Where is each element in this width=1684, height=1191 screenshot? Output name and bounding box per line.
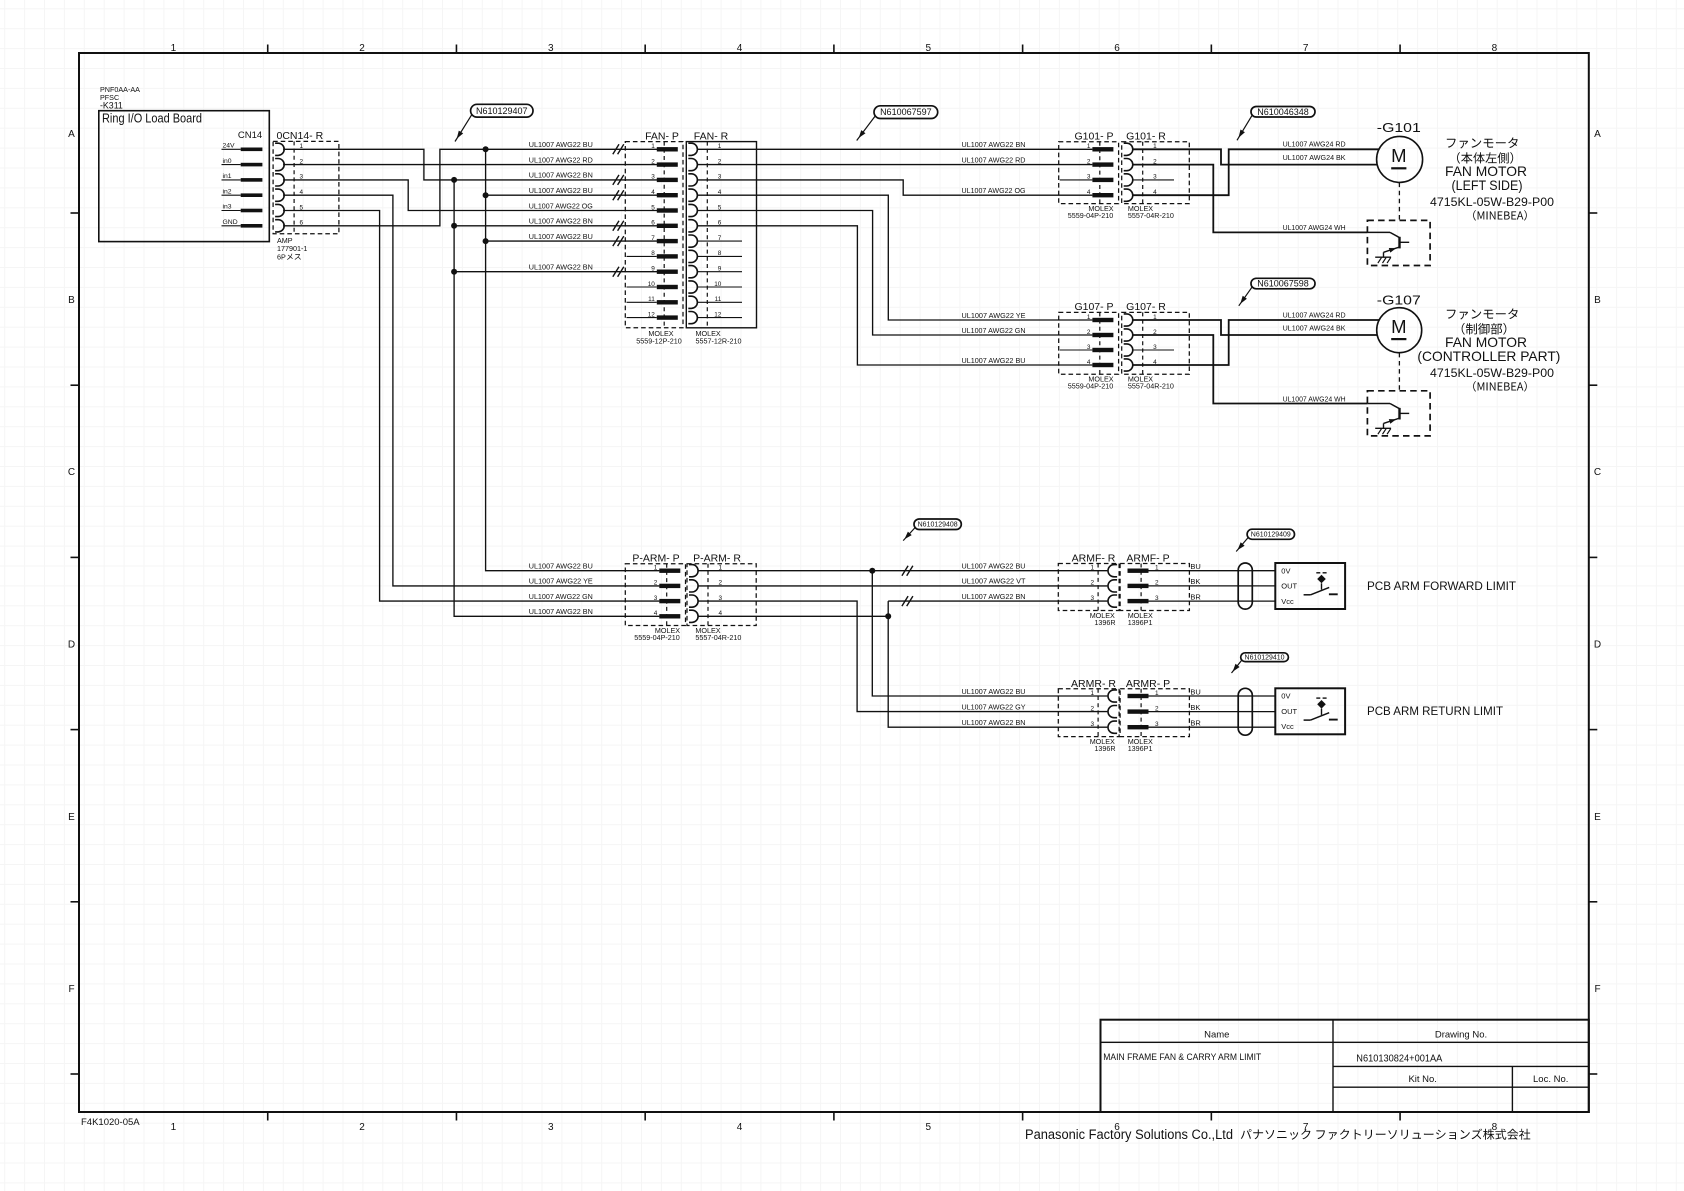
junction BU branch xyxy=(869,568,875,574)
svg-text:Loc. No.: Loc. No. xyxy=(1533,1074,1568,1085)
svg-text:1: 1 xyxy=(171,43,177,54)
svg-text:N610067597: N610067597 xyxy=(880,107,932,117)
svg-text:6: 6 xyxy=(1114,43,1120,54)
crossing mark row7 xyxy=(613,236,619,246)
wire P-ARM-R pin1 to ARMF-R pin1 (BU) xyxy=(698,570,1107,572)
svg-text:N610129408: N610129408 xyxy=(918,520,958,529)
reference bubble N610129407 xyxy=(471,104,533,117)
reference bubble N610067597 xyxy=(874,106,938,119)
svg-text:N610130824+001AA: N610130824+001AA xyxy=(1356,1052,1442,1064)
svg-text:0V: 0V xyxy=(1281,566,1290,575)
wire branch BU down to ARMR-R pin1 xyxy=(872,571,1107,696)
svg-text:UL1007 AWG22 BU: UL1007 AWG22 BU xyxy=(529,232,593,241)
wire net-A branch to FAN-P pin4 xyxy=(486,194,660,196)
reference bubble N610067598 xyxy=(1251,278,1315,289)
junction net-A row7 xyxy=(483,238,489,244)
svg-text:PCB ARM RETURN LIMIT: PCB ARM RETURN LIMIT xyxy=(1367,704,1503,718)
svg-text:N610129410: N610129410 xyxy=(1245,653,1285,662)
svg-text:5559-04P-210: 5559-04P-210 xyxy=(634,633,680,642)
svg-text:4715KL-05W-B29-P00: 4715KL-05W-B29-P00 xyxy=(1430,366,1554,380)
crossing mark row1 xyxy=(613,144,619,154)
svg-text:7: 7 xyxy=(1303,43,1309,54)
svg-text:UL1007 AWG22 RD: UL1007 AWG22 RD xyxy=(962,155,1026,164)
svg-text:OUT: OUT xyxy=(1281,707,1297,716)
cable grouping oval ARMF xyxy=(1238,563,1252,609)
svg-text:UL1007 AWG22 RD: UL1007 AWG22 RD xyxy=(529,155,593,164)
wire ARMR-P pin1 to switch (BU) xyxy=(1149,695,1276,697)
svg-text:3: 3 xyxy=(651,174,655,181)
junction BN branch xyxy=(885,613,891,619)
svg-text:BK: BK xyxy=(1190,703,1200,712)
board -K311 Ring I/O Load Board xyxy=(99,111,269,242)
wire ARMF-P pin1 to switch (BU) xyxy=(1149,570,1276,572)
svg-text:8: 8 xyxy=(1492,43,1498,54)
reference bubble N610046348 xyxy=(1251,107,1315,118)
svg-text:B: B xyxy=(1594,295,1601,306)
svg-text:BU: BU xyxy=(1190,687,1200,696)
svg-text:5557-04R-210: 5557-04R-210 xyxy=(1128,382,1174,391)
svg-text:2: 2 xyxy=(1090,705,1094,712)
svg-text:UL1007 AWG22 BN: UL1007 AWG22 BN xyxy=(529,217,593,226)
svg-text:UL1007 AWG22 BN: UL1007 AWG22 BN xyxy=(529,263,593,272)
svg-text:2: 2 xyxy=(654,580,658,587)
svg-text:UL1007 AWG22 BN: UL1007 AWG22 BN xyxy=(529,171,593,180)
svg-text:Vcc: Vcc xyxy=(1281,722,1294,731)
svg-text:5557-04R-210: 5557-04R-210 xyxy=(695,633,741,642)
svg-text:9: 9 xyxy=(651,266,655,273)
junction net-A row4 xyxy=(483,192,489,198)
thermal sensor transistor for G101 (with ground) xyxy=(1367,220,1430,265)
svg-text:Kit No.: Kit No. xyxy=(1408,1074,1437,1085)
wire net-B 0CN14-R pin1 to FAN-P pin3 (BN) xyxy=(283,149,659,180)
svg-text:UL1007 AWG22 BU: UL1007 AWG22 BU xyxy=(962,687,1026,696)
svg-text:UL1007 AWG22 OG: UL1007 AWG22 OG xyxy=(962,186,1026,195)
crossing mark row9 xyxy=(613,267,619,277)
wire G107-R pin2 to thermal sensor WH lead xyxy=(1133,335,1368,404)
svg-text:M: M xyxy=(1391,316,1406,337)
svg-text:-G107: -G107 xyxy=(1377,293,1421,308)
svg-text:4: 4 xyxy=(651,189,655,196)
svg-text:1: 1 xyxy=(1090,690,1094,697)
svg-text:1: 1 xyxy=(1087,314,1091,321)
svg-text:FAN- R: FAN- R xyxy=(694,131,729,143)
svg-text:G107- R: G107- R xyxy=(1126,301,1166,313)
svg-text:in0: in0 xyxy=(223,158,232,165)
svg-text:ARMF- P: ARMF- P xyxy=(1126,553,1169,565)
wire P-ARM-R pin2 to ARMF-R pin2 (VT) xyxy=(698,585,1107,587)
svg-text:4: 4 xyxy=(737,43,743,54)
svg-text:-G101: -G101 xyxy=(1377,120,1421,135)
svg-text:Panasonic Factory Solutions Co: Panasonic Factory Solutions Co.,Ltd xyxy=(1025,1127,1233,1142)
svg-text:6: 6 xyxy=(651,220,655,227)
wire 0CN14-R pin2 to FAN-P pin2 (RD) xyxy=(283,164,659,166)
svg-text:UL1007 AWG22 VT: UL1007 AWG22 VT xyxy=(962,577,1027,586)
svg-text:2: 2 xyxy=(651,158,655,165)
wire ARMR-P pin3 to switch (BR) xyxy=(1149,726,1276,728)
svg-text:5557-12R-210: 5557-12R-210 xyxy=(696,337,742,346)
svg-text:N610129407: N610129407 xyxy=(476,106,528,116)
wire ARMR-P pin2 to switch (BK) xyxy=(1149,711,1276,713)
svg-text:in1: in1 xyxy=(223,173,232,180)
thermal sensor transistor for G107 (with ground) xyxy=(1367,391,1430,436)
svg-text:1396P1: 1396P1 xyxy=(1128,618,1153,627)
G107-P pin3 stub xyxy=(1060,349,1093,351)
svg-text:UL1007 AWG22 BU: UL1007 AWG22 BU xyxy=(962,562,1026,571)
svg-text:F4K1020-05A: F4K1020-05A xyxy=(81,1117,140,1128)
label fan motor G101 description xyxy=(1447,137,1518,148)
wire G107-R pin1 to motor BK lead xyxy=(1133,320,1378,335)
junction net-B row9 xyxy=(451,269,457,275)
wire ARMF-P pin2 to switch (BK) xyxy=(1149,585,1276,587)
wire 0CN14-R pin4 to P-ARM-P pin2 (YE) xyxy=(283,195,659,586)
svg-text:1: 1 xyxy=(1087,143,1091,150)
svg-text:CN14: CN14 xyxy=(238,130,262,141)
crossing mark row4 xyxy=(613,190,619,200)
wire net-B branch to FAN-P pin6 xyxy=(454,225,659,227)
svg-text:5559-04P-210: 5559-04P-210 xyxy=(1068,382,1114,391)
svg-text:UL1007 AWG22 BU: UL1007 AWG22 BU xyxy=(529,562,593,571)
svg-text:2: 2 xyxy=(1090,580,1094,587)
svg-text:D: D xyxy=(1594,639,1601,650)
svg-text:A: A xyxy=(68,129,75,140)
svg-text:3: 3 xyxy=(1090,595,1094,602)
svg-text:6P: 6P xyxy=(277,253,286,262)
reference bubble N610129408 xyxy=(914,519,961,530)
svg-text:Ring I/O Load Board: Ring I/O Load Board xyxy=(102,111,202,126)
svg-text:F: F xyxy=(68,984,74,995)
svg-text:UL1007 AWG22 BN: UL1007 AWG22 BN xyxy=(529,607,593,616)
junction net-B row3 xyxy=(451,177,457,183)
svg-text:E: E xyxy=(1594,812,1601,823)
svg-text:N610046348: N610046348 xyxy=(1257,107,1309,117)
wire net-A branch to FAN-P pin7 xyxy=(486,240,660,242)
label fan motor G107 description xyxy=(1447,308,1518,319)
svg-text:PCB ARM FORWARD LIMIT: PCB ARM FORWARD LIMIT xyxy=(1367,579,1516,593)
wire G101-R pin2 to thermal sensor WH lead xyxy=(1133,165,1368,233)
svg-text:BK: BK xyxy=(1190,577,1200,586)
svg-text:Name: Name xyxy=(1204,1029,1229,1040)
svg-text:in2: in2 xyxy=(223,188,232,195)
wire ARMF-P pin3 to switch (BR) xyxy=(1149,600,1276,602)
wire FAN-R pin6 to G107-P pin4 (BU) xyxy=(697,226,1092,365)
svg-text:4: 4 xyxy=(654,610,658,617)
svg-text:UL1007 AWG22 YE: UL1007 AWG22 YE xyxy=(529,577,593,586)
junction net-A row1 xyxy=(483,146,489,152)
svg-text:C: C xyxy=(1594,467,1601,478)
svg-text:OUT: OUT xyxy=(1281,582,1297,591)
svg-text:1: 1 xyxy=(654,565,658,572)
svg-text:4715KL-05W-B29-P00: 4715KL-05W-B29-P00 xyxy=(1430,195,1554,209)
svg-text:1: 1 xyxy=(1090,565,1094,572)
svg-text:5559-12P-210: 5559-12P-210 xyxy=(636,337,682,346)
svg-text:ARMR- P: ARMR- P xyxy=(1126,678,1170,690)
svg-text:UL1007 AWG22 BU: UL1007 AWG22 BU xyxy=(529,140,593,149)
svg-text:Drawing No.: Drawing No. xyxy=(1435,1029,1487,1040)
svg-text:5: 5 xyxy=(925,43,931,54)
svg-text:MAIN FRAME FAN & CARRY ARM LIM: MAIN FRAME FAN & CARRY ARM LIMIT xyxy=(1103,1052,1261,1062)
svg-text:UL1007 AWG22 BN: UL1007 AWG22 BN xyxy=(962,140,1026,149)
svg-text:UL1007 AWG24 RD: UL1007 AWG24 RD xyxy=(1283,140,1346,149)
junction net-B row6 xyxy=(451,223,457,229)
wire FAN-R pin4 to G107-P pin1 (YE) xyxy=(697,195,1092,320)
svg-text:24V: 24V xyxy=(223,143,236,150)
svg-text:UL1007 AWG22 GY: UL1007 AWG22 GY xyxy=(962,702,1026,711)
wire G107-R pin4 to motor RD lead xyxy=(1133,320,1379,365)
svg-text:Vcc: Vcc xyxy=(1281,597,1294,606)
svg-text:1: 1 xyxy=(651,143,655,150)
svg-text:5: 5 xyxy=(651,204,655,211)
svg-text:G107- P: G107- P xyxy=(1074,301,1113,313)
svg-text:2: 2 xyxy=(359,43,365,54)
title block xyxy=(1101,1020,1589,1112)
wire P-ARM-R pin4 to ARMF-R pin3 and ARMR-R pin3 (BN) xyxy=(698,615,888,617)
wire P-ARM-R pin3 to ARMR-R pin2 (GY) xyxy=(698,601,1107,712)
svg-text:5559-04P-210: 5559-04P-210 xyxy=(1068,211,1114,220)
wire G101-R pin4 to motor RD lead xyxy=(1133,149,1379,195)
svg-text:(LEFT SIDE): (LEFT SIDE) xyxy=(1452,177,1523,193)
svg-text:BU: BU xyxy=(1190,562,1200,571)
wire FAN-R pin3 to G101-P pin4 (OG) xyxy=(697,180,1092,195)
wire net-B branch VA down to P-ARM-P pin4 xyxy=(454,180,659,616)
svg-text:7: 7 xyxy=(651,235,655,242)
wire FAN-R pin1 to G101-P pin1 (BN) xyxy=(697,148,1092,150)
svg-text:in3: in3 xyxy=(223,204,232,211)
svg-text:UL1007 AWG22 OG: UL1007 AWG22 OG xyxy=(529,201,593,210)
svg-text:3: 3 xyxy=(654,595,658,602)
svg-text:GND: GND xyxy=(223,219,238,226)
wire 0CN14-R pin5 to P-ARM-P pin3 (GN) xyxy=(283,211,659,602)
svg-text:4: 4 xyxy=(737,1122,743,1133)
wire G101-R pin1 to motor BK lead xyxy=(1133,149,1378,164)
svg-text:UL1007 AWG24 WH: UL1007 AWG24 WH xyxy=(1283,223,1346,232)
svg-text:A: A xyxy=(1594,129,1601,140)
svg-text:UL1007 AWG24 RD: UL1007 AWG24 RD xyxy=(1283,310,1346,319)
G101-R pin3 stub xyxy=(1133,179,1174,181)
sensor symbol return limit switch xyxy=(1316,697,1320,699)
svg-text:G101- R: G101- R xyxy=(1126,130,1166,142)
svg-text:UL1007 AWG24 BK: UL1007 AWG24 BK xyxy=(1283,324,1346,333)
limit switch box PCB ARM RETURN LIMIT xyxy=(1275,688,1345,734)
svg-text:1: 1 xyxy=(171,1122,177,1133)
svg-text:UL1007 AWG22 BU: UL1007 AWG22 BU xyxy=(529,186,593,195)
svg-text:P-ARM- R: P-ARM- R xyxy=(693,553,741,565)
svg-text:B: B xyxy=(68,295,75,306)
svg-text:5557-04R-210: 5557-04R-210 xyxy=(1128,211,1174,220)
svg-text:4: 4 xyxy=(1087,359,1091,366)
svg-text:UL1007 AWG22 GN: UL1007 AWG22 GN xyxy=(962,326,1026,335)
svg-text:M: M xyxy=(1391,145,1406,166)
FAN-R contact stubs pins 7-12 xyxy=(697,240,742,242)
svg-text:2: 2 xyxy=(359,1122,365,1133)
svg-text:0V: 0V xyxy=(1281,692,1290,701)
svg-text:UL1007 AWG22 BN: UL1007 AWG22 BN xyxy=(962,592,1026,601)
svg-text:E: E xyxy=(68,812,75,823)
svg-text:G101- P: G101- P xyxy=(1074,130,1113,142)
svg-text:UL1007 AWG24 BK: UL1007 AWG24 BK xyxy=(1283,153,1346,162)
wire 0CN14-R pin3 to FAN-P pin5 (OG) xyxy=(283,180,659,211)
dashed link motor G107 to thermal sensor xyxy=(1398,353,1400,391)
svg-text:(CONTROLLER PART): (CONTROLLER PART) xyxy=(1417,348,1560,364)
svg-text:1396R: 1396R xyxy=(1094,618,1115,627)
svg-text:2: 2 xyxy=(1087,158,1091,165)
svg-text:0CN14- R: 0CN14- R xyxy=(277,130,324,142)
svg-text:ARMR- R: ARMR- R xyxy=(1071,678,1116,690)
svg-text:ARMF- R: ARMF- R xyxy=(1072,553,1116,565)
svg-text:F: F xyxy=(1594,984,1600,995)
G101-P pin3 stub xyxy=(1060,179,1093,181)
sensor symbol forward limit switch xyxy=(1316,572,1320,574)
G107-R pin3 stub xyxy=(1133,349,1174,351)
crossing mark row3 xyxy=(613,175,619,185)
cable grouping oval ARMR xyxy=(1238,688,1252,735)
svg-text:D: D xyxy=(68,639,75,650)
reference bubble N610129410 xyxy=(1241,653,1289,662)
svg-text:N610067598: N610067598 xyxy=(1257,279,1309,289)
svg-text:UL1007 AWG24 WH: UL1007 AWG24 WH xyxy=(1283,394,1346,403)
svg-text:UL1007 AWG22 BN: UL1007 AWG22 BN xyxy=(962,718,1026,727)
limit switch box PCB ARM FORWARD LIMIT xyxy=(1275,563,1345,609)
svg-text:5: 5 xyxy=(925,1122,931,1133)
svg-text:N610129409: N610129409 xyxy=(1251,530,1291,539)
svg-text:BR: BR xyxy=(1190,719,1201,728)
svg-text:1396R: 1396R xyxy=(1094,744,1115,753)
svg-text:C: C xyxy=(68,467,75,478)
svg-text:UL1007 AWG22 BU: UL1007 AWG22 BU xyxy=(962,356,1026,365)
svg-text:3: 3 xyxy=(548,43,554,54)
svg-text:2: 2 xyxy=(1087,329,1091,336)
svg-text:4: 4 xyxy=(1087,189,1091,196)
wire net-A 0CN14-R pin6 to FAN-P pin1 (24V/BU) xyxy=(283,149,659,226)
crossing mark ARMF BN xyxy=(902,596,908,606)
svg-text:P-ARM- P: P-ARM- P xyxy=(632,553,679,565)
wire net-B branch to FAN-P pin9 xyxy=(454,271,659,273)
reference bubble N610129409 xyxy=(1247,529,1294,539)
wire FAN-R pin5 to G107-P pin2 (GN) xyxy=(697,211,1092,336)
svg-text:BR: BR xyxy=(1190,592,1201,601)
crossing mark row6 xyxy=(613,221,619,231)
svg-text:FAN- P: FAN- P xyxy=(645,131,679,143)
svg-text:3: 3 xyxy=(548,1122,554,1133)
svg-text:1396P1: 1396P1 xyxy=(1128,744,1153,753)
svg-text:-K311: -K311 xyxy=(100,101,123,111)
dashed link motor G101 to thermal sensor xyxy=(1398,183,1400,221)
wire FAN-R pin2 to G101-P pin2 (RD) xyxy=(697,164,1092,166)
svg-text:UL1007 AWG22 GN: UL1007 AWG22 GN xyxy=(529,592,593,601)
svg-text:3: 3 xyxy=(1090,721,1094,728)
svg-text:UL1007 AWG22 YE: UL1007 AWG22 YE xyxy=(962,311,1026,320)
wire net-A branch VB down to P-ARM-P pin1 xyxy=(486,149,660,570)
FAN-P unused pin stubs 8,10,11,12 xyxy=(627,255,657,257)
crossing mark ARMF BU xyxy=(902,566,908,576)
